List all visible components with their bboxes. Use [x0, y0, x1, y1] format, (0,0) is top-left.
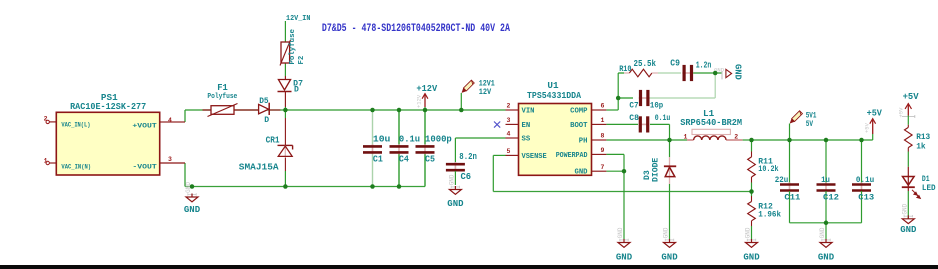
svg-text:C1: C1 [373, 154, 383, 164]
svg-text:1: 1 [601, 117, 605, 124]
svg-text:2: 2 [507, 103, 511, 110]
svg-text:5: 5 [507, 148, 511, 155]
svg-text:+5V: +5V [897, 107, 904, 118]
svg-text:4: 4 [168, 117, 172, 124]
svg-text:GND: GND [447, 199, 464, 209]
svg-text:GND: GND [900, 225, 917, 235]
svg-text:VAC_IN(L): VAC_IN(L) [61, 122, 90, 130]
svg-text:LED: LED [922, 184, 936, 193]
svg-text:2: 2 [44, 116, 48, 123]
svg-text:1.96k: 1.96k [758, 211, 781, 220]
svg-text:C13: C13 [858, 194, 874, 203]
svg-text:SRP6540-BR2M: SRP6540-BR2M [680, 117, 742, 128]
svg-text:D5: D5 [259, 97, 269, 106]
svg-text:8: 8 [601, 133, 605, 140]
svg-text:Polyfuse: Polyfuse [289, 28, 297, 64]
svg-text:+5V: +5V [903, 91, 919, 102]
svg-text:12V1: 12V1 [479, 79, 495, 88]
svg-text:-VOUT: -VOUT [132, 163, 156, 171]
svg-text:GND: GND [819, 227, 826, 238]
svg-text:+VOUT: +VOUT [132, 122, 156, 130]
svg-text:GND: GND [733, 64, 743, 80]
svg-text:GND: GND [575, 169, 589, 177]
svg-text:GND: GND [663, 227, 670, 238]
svg-text:VSENSE: VSENSE [522, 153, 548, 161]
svg-text:5V1: 5V1 [806, 111, 817, 120]
svg-text:0.1u: 0.1u [655, 114, 671, 123]
svg-text:D: D [264, 116, 269, 125]
svg-text:C8: C8 [629, 114, 639, 123]
svg-text:1: 1 [684, 133, 688, 140]
svg-text:1: 1 [44, 157, 48, 164]
svg-text:3: 3 [168, 156, 172, 163]
svg-text:R10: R10 [619, 65, 631, 74]
svg-text:12V_IN: 12V_IN [286, 15, 310, 23]
svg-text:GND: GND [818, 253, 835, 263]
svg-text:25.5k: 25.5k [634, 59, 657, 69]
svg-text:GND: GND [661, 253, 678, 263]
svg-text:GND: GND [449, 174, 456, 185]
svg-text:C11: C11 [784, 194, 800, 203]
svg-text:+12V: +12V [416, 94, 423, 108]
svg-text:+5V: +5V [867, 108, 883, 119]
svg-text:RAC10E-12SK-277: RAC10E-12SK-277 [70, 101, 146, 112]
svg-text:+5V: +5V [864, 122, 871, 133]
svg-text:VAC_IN(N): VAC_IN(N) [61, 163, 91, 171]
svg-text:C9: C9 [670, 58, 680, 68]
svg-text:BOOT: BOOT [570, 122, 588, 130]
svg-text:F1: F1 [217, 83, 228, 93]
svg-text:POWERPAD: POWERPAD [556, 152, 588, 160]
svg-text:9: 9 [601, 147, 605, 154]
svg-text:1k: 1k [916, 143, 926, 152]
svg-text:2: 2 [734, 133, 738, 140]
svg-text:GND: GND [745, 227, 752, 238]
svg-text:10p: 10p [650, 102, 663, 111]
svg-text:PH: PH [579, 137, 588, 145]
svg-text:4: 4 [507, 131, 511, 138]
svg-text:C5: C5 [425, 154, 435, 164]
svg-text:TPS54331DDA: TPS54331DDA [527, 90, 581, 101]
svg-text:EN: EN [522, 122, 531, 130]
svg-text:D: D [294, 86, 299, 95]
svg-text:+12V: +12V [416, 83, 437, 94]
svg-text:1000p: 1000p [425, 135, 452, 145]
svg-text:C7: C7 [629, 102, 638, 111]
svg-text:CR1: CR1 [266, 135, 280, 146]
svg-text:GND: GND [617, 227, 624, 238]
svg-text:10.2k: 10.2k [758, 165, 778, 174]
svg-text:0.1u: 0.1u [399, 135, 420, 145]
svg-text:VIN: VIN [522, 107, 535, 115]
svg-text:D7&D5 - 478-SD1206T04052R0CT-N: D7&D5 - 478-SD1206T04052R0CT-ND 40V 2A [322, 23, 510, 35]
svg-text:GND: GND [184, 205, 201, 215]
svg-text:7: 7 [601, 164, 605, 171]
svg-text:F2: F2 [298, 56, 306, 65]
svg-text:1.2n: 1.2n [696, 61, 712, 71]
svg-text:C6: C6 [461, 172, 472, 182]
svg-text:R13: R13 [916, 133, 930, 142]
svg-text:SS: SS [522, 135, 531, 143]
svg-text:22u: 22u [775, 176, 789, 185]
svg-text:GND: GND [743, 253, 760, 263]
svg-text:3: 3 [507, 117, 511, 124]
svg-text:DIODE: DIODE [652, 158, 661, 182]
svg-text:5V: 5V [806, 120, 813, 129]
svg-text:COMP: COMP [570, 107, 588, 115]
svg-text:10u: 10u [373, 135, 391, 145]
svg-text:1u: 1u [821, 176, 830, 185]
svg-text:GND: GND [902, 203, 909, 214]
svg-text:SMAJ15A: SMAJ15A [239, 162, 279, 173]
svg-text:C4: C4 [399, 154, 410, 164]
svg-text:C12: C12 [823, 194, 839, 203]
svg-text:6: 6 [601, 103, 605, 110]
svg-text:GND: GND [616, 253, 633, 263]
svg-text:8.2n: 8.2n [459, 152, 477, 162]
svg-text:D1: D1 [922, 175, 930, 184]
svg-text:12V: 12V [479, 88, 492, 97]
svg-text:Polyfuse: Polyfuse [207, 93, 237, 101]
svg-text:0.1u: 0.1u [856, 176, 874, 185]
